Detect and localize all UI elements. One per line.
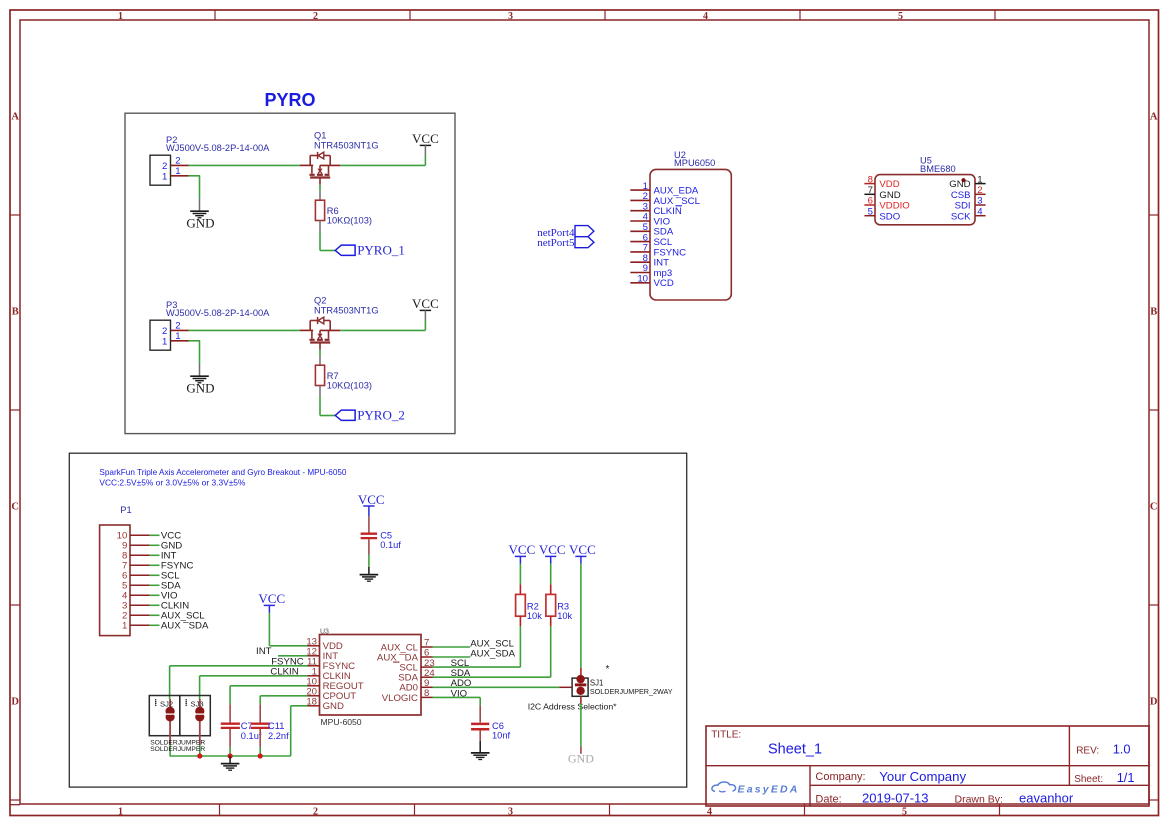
svg-text:C: C	[11, 501, 19, 512]
svg-text:SparkFun Triple Axis Accelerom: SparkFun Triple Axis Accelerometer and G…	[99, 468, 347, 477]
svg-text:SCK: SCK	[951, 211, 971, 222]
svg-text:VIO: VIO	[451, 688, 468, 699]
svg-text:Date:: Date:	[815, 793, 841, 805]
svg-text:VCC: VCC	[509, 542, 536, 557]
svg-text:C6: C6	[492, 721, 504, 731]
svg-text:0.1uf: 0.1uf	[241, 731, 262, 741]
svg-text:GND: GND	[568, 751, 594, 765]
svg-text:2.2nf: 2.2nf	[268, 731, 289, 741]
svg-text:1: 1	[122, 621, 127, 632]
svg-text:INT: INT	[256, 646, 272, 657]
svg-text:GND: GND	[949, 179, 970, 190]
svg-text:VCC: VCC	[358, 492, 385, 507]
svg-text:SOLDERJUMPER_2WAY: SOLDERJUMPER_2WAY	[590, 687, 673, 696]
svg-text:2019-07-13: 2019-07-13	[862, 790, 929, 805]
svg-text:2: 2	[977, 185, 982, 196]
svg-text:1.0: 1.0	[1113, 742, 1131, 757]
svg-text:netPort5: netPort5	[537, 237, 575, 249]
svg-text:18: 18	[306, 697, 317, 708]
svg-text:10nf: 10nf	[492, 731, 511, 741]
svg-text:D: D	[1150, 696, 1158, 707]
svg-text:2: 2	[313, 11, 318, 22]
svg-text:Sheet_1: Sheet_1	[768, 742, 822, 758]
svg-text:SJ1: SJ1	[590, 678, 603, 687]
svg-text:1: 1	[118, 11, 123, 22]
svg-text:A: A	[11, 111, 19, 122]
svg-text:10: 10	[637, 274, 648, 285]
svg-text:4: 4	[703, 11, 708, 22]
svg-text:R7: R7	[327, 371, 339, 381]
svg-text:AUX_SDA: AUX_SDA	[470, 648, 515, 659]
svg-text:5: 5	[868, 206, 873, 217]
svg-text:3: 3	[508, 806, 513, 817]
svg-text:CLKIN: CLKIN	[270, 666, 298, 677]
svg-text:SJ2: SJ2	[160, 699, 173, 708]
svg-text:TITLE:: TITLE:	[711, 730, 741, 741]
svg-text:VDDIO: VDDIO	[879, 201, 909, 212]
svg-text:PYRO: PYRO	[264, 90, 315, 110]
svg-text:0.1uf: 0.1uf	[380, 540, 401, 550]
svg-text:C: C	[1150, 501, 1158, 512]
svg-text:CSB: CSB	[951, 190, 971, 201]
svg-text:P3: P3	[166, 300, 177, 310]
svg-text:P1: P1	[120, 505, 131, 515]
svg-text:3: 3	[508, 11, 513, 22]
svg-text:Q2: Q2	[314, 296, 326, 306]
svg-text:5: 5	[902, 806, 907, 817]
svg-text:B: B	[1150, 306, 1157, 317]
svg-text:4: 4	[707, 806, 712, 817]
svg-text:2: 2	[313, 806, 318, 817]
svg-text:8: 8	[424, 688, 429, 699]
svg-text:SDI: SDI	[955, 201, 971, 212]
svg-text:PYRO_2: PYRO_2	[357, 407, 405, 422]
svg-text:B: B	[12, 306, 19, 317]
svg-text:4: 4	[977, 206, 983, 217]
svg-text:1: 1	[118, 806, 123, 817]
svg-text:BME680: BME680	[920, 164, 956, 174]
svg-text:Your Company: Your Company	[879, 769, 966, 784]
svg-text:5: 5	[898, 11, 903, 22]
svg-text:1/1: 1/1	[1117, 770, 1135, 785]
svg-text:*: *	[606, 664, 610, 675]
svg-text:Sheet:: Sheet:	[1074, 774, 1103, 785]
svg-text:D: D	[11, 696, 19, 707]
svg-text:VDD: VDD	[879, 179, 899, 190]
svg-text:R2: R2	[527, 601, 539, 611]
svg-text:MPU-6050: MPU-6050	[321, 717, 362, 727]
svg-text:VCC: VCC	[539, 542, 566, 557]
svg-text:I2C Address Selection*: I2C Address Selection*	[528, 702, 617, 712]
svg-text:GND: GND	[879, 190, 900, 201]
svg-text:VLOGIC: VLOGIC	[382, 693, 418, 704]
svg-text:SDO: SDO	[879, 211, 900, 222]
svg-text:VCD: VCD	[654, 278, 674, 289]
svg-text:eavanhor: eavanhor	[1019, 790, 1074, 805]
svg-text:C11: C11	[268, 721, 284, 731]
svg-text:VCC:2.5V±5% or 3.0V±5% or 3.3V: VCC:2.5V±5% or 3.0V±5% or 3.3V±5%	[99, 477, 246, 487]
svg-text:MPU6050: MPU6050	[674, 158, 715, 168]
svg-text:SOLDERJUMPER: SOLDERJUMPER	[150, 746, 205, 753]
svg-text:8: 8	[868, 174, 873, 185]
svg-text:6: 6	[868, 196, 873, 207]
svg-text:VCC: VCC	[258, 591, 285, 606]
svg-text:3: 3	[977, 196, 982, 207]
svg-text:A: A	[1150, 111, 1158, 122]
svg-text:EasyEDA: EasyEDA	[738, 783, 800, 795]
svg-text:1: 1	[977, 174, 982, 185]
svg-text:7: 7	[868, 185, 873, 196]
svg-text:Drawn By:: Drawn By:	[955, 793, 1003, 805]
svg-text:R3: R3	[557, 601, 569, 611]
svg-text:GND: GND	[323, 701, 344, 712]
svg-text:C7: C7	[241, 721, 253, 731]
svg-text:10k: 10k	[527, 611, 542, 621]
svg-text:10k: 10k	[557, 611, 572, 621]
svg-text:Company:: Company:	[815, 771, 865, 783]
svg-text:SJ3: SJ3	[191, 699, 204, 708]
svg-text:VCC: VCC	[569, 542, 596, 557]
svg-text:REV:: REV:	[1076, 746, 1099, 757]
